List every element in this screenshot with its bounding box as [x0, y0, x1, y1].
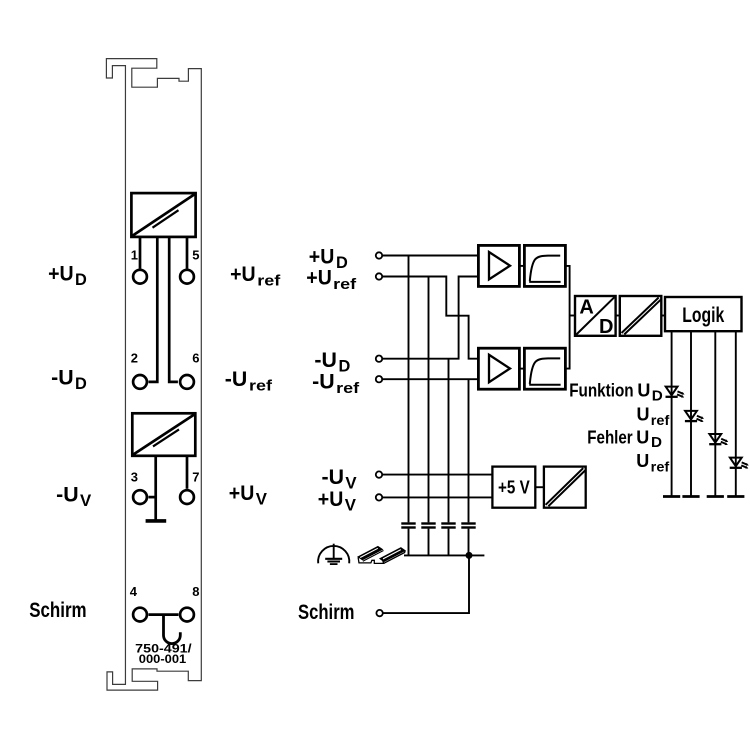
shield clamp curl [164, 616, 181, 644]
terminal 5 clamp circle [180, 270, 194, 284]
wire U1 to F1 [519, 265, 524, 267]
svg-text:Fehler: Fehler [587, 428, 632, 448]
Logik block [665, 297, 742, 331]
capacitor C3 [441, 524, 455, 528]
LED wire 4 (Fehler Uref) [735, 331, 737, 496]
DIN rail icon [358, 546, 405, 563]
link wire terminal 4 to terminal 8 [149, 613, 179, 616]
svg-text:V: V [345, 496, 357, 515]
node circle -UV [376, 471, 382, 477]
terminal 1 clamp circle [133, 270, 147, 284]
svg-text:+5 V: +5 V [498, 477, 530, 497]
svg-text:2: 2 [131, 351, 138, 366]
svg-text:U: U [636, 451, 649, 471]
bus drop -UD to capacitor C3 [448, 359, 450, 523]
svg-text:ref: ref [333, 276, 357, 293]
wire isolation to Logik [661, 315, 665, 317]
svg-text:U: U [637, 381, 650, 401]
amplifier U2 [478, 348, 519, 389]
bus drop -Uref to capacitor C4 [468, 379, 470, 522]
terminal 7 clamp circle [180, 490, 194, 504]
svg-text:ref: ref [257, 273, 281, 290]
node circle +UV [376, 494, 382, 500]
svg-text:-U: -U [56, 484, 79, 507]
capacitor C2 [421, 524, 435, 528]
svg-text:7: 7 [192, 469, 199, 484]
svg-text:V: V [256, 489, 268, 508]
terminal 3 clamp circle [133, 490, 147, 504]
pin wire to terminal 1 [139, 237, 142, 269]
terminal 6 clamp circle [180, 375, 194, 389]
stub terminal 3 to chassis wire [149, 496, 156, 499]
svg-text:D: D [75, 374, 87, 393]
svg-text:-U: -U [314, 349, 337, 372]
svg-text:ref: ref [249, 378, 273, 395]
capacitor C4 [461, 524, 475, 528]
wire U2 to F2 [519, 368, 524, 370]
svg-text:-U: -U [51, 367, 74, 390]
svg-text:ref: ref [336, 380, 360, 397]
amplifier U1 [478, 245, 519, 286]
svg-text:Funktion: Funktion [569, 381, 633, 401]
svg-text:000-001: 000-001 [139, 652, 187, 666]
svg-text:+U: +U [306, 266, 332, 289]
terminal 4 clamp circle [133, 608, 147, 622]
junction dot Schirm/ground [466, 552, 473, 559]
svg-text:1: 1 [131, 247, 138, 262]
svg-text:+U: +U [230, 263, 256, 286]
LED D1 [666, 387, 685, 398]
pin wire to terminal 7 [186, 456, 189, 489]
svg-text:3: 3 [131, 469, 138, 484]
LED wire 3 (Fehler UD) [714, 331, 716, 496]
svg-text:D: D [652, 387, 663, 404]
svg-text:D: D [651, 434, 662, 451]
bus drop +Uref to capacitor C2 [428, 277, 430, 523]
wire +UD to amplifier U1 [382, 255, 478, 257]
filter F1 [524, 245, 565, 286]
svg-text:6: 6 [192, 351, 199, 366]
svg-text:4: 4 [130, 584, 138, 599]
svg-text:5: 5 [192, 247, 199, 262]
isolation block after A/D (double diagonal) [620, 296, 662, 336]
svg-text:V: V [80, 491, 92, 510]
LED D3 [709, 434, 728, 445]
svg-text:V: V [345, 474, 357, 493]
node circle +Uref [376, 273, 382, 279]
svg-text:8: 8 [192, 584, 199, 599]
svg-text:ref: ref [651, 459, 670, 474]
svg-text:D: D [336, 253, 348, 272]
wire +UV to +5V converter [382, 496, 492, 498]
svg-text:Logik: Logik [682, 304, 724, 327]
converter block B2 (galvanic isolation) [132, 413, 195, 456]
svg-text:Schirm: Schirm [298, 601, 355, 624]
terminal 2 clamp circle [133, 375, 147, 389]
svg-text:-U: -U [225, 368, 248, 391]
wire C1 to ground bus [408, 529, 410, 556]
wire +5V to isolation block [535, 486, 544, 488]
pin wire to terminal 6 [169, 237, 178, 382]
svg-text:U: U [637, 405, 650, 425]
pin wire to terminal 5 [186, 237, 189, 269]
svg-text:+U: +U [229, 482, 255, 505]
svg-text:ref: ref [651, 413, 670, 428]
svg-text:D: D [339, 357, 351, 376]
node circle -UD [376, 356, 382, 362]
wire C3 to ground bus [448, 529, 450, 556]
bus drop +UD to capacitor C1 [408, 256, 410, 523]
terminal 8 clamp circle [180, 608, 194, 622]
LED D2 [685, 411, 704, 422]
LED D4 [730, 458, 749, 469]
pin wire block B2 to chassis [154, 456, 157, 520]
svg-text:+U: +U [48, 262, 74, 285]
LED wire 1 (Funktion UD) [671, 331, 673, 496]
capacitor C1 [401, 524, 415, 528]
wire -UV to +5V converter [382, 474, 492, 476]
wire -UD routed up to amplifier U1 [382, 277, 478, 359]
wire +Uref routed to amplifier U2 [382, 277, 478, 359]
svg-text:A: A [579, 296, 593, 318]
ground bus wire [404, 554, 484, 556]
svg-text:D: D [599, 316, 613, 338]
isolation block after +5V (double diagonal) [544, 467, 586, 508]
LED wire 2 (Funktion Uref) [690, 331, 692, 496]
wire C2 to ground bus [428, 529, 430, 556]
wire A/D to isolation block [616, 315, 620, 317]
svg-text:D: D [75, 270, 87, 289]
wire C4 to ground bus [468, 529, 470, 556]
svg-text:U: U [636, 428, 649, 448]
svg-text:+U: +U [309, 245, 335, 268]
riser joining F1 and F2 outputs [565, 266, 569, 369]
wire Schirm to junction [383, 555, 469, 613]
svg-text:-U: -U [312, 370, 335, 393]
svg-text:+U: +U [318, 488, 344, 511]
module housing outline 750-491 [106, 59, 201, 691]
svg-text:Schirm: Schirm [29, 599, 86, 622]
svg-text:-U: -U [322, 466, 345, 489]
wire -Uref to amplifier U2 [382, 378, 478, 380]
A/D converter block [575, 296, 616, 336]
LED wire 4 end bar [727, 495, 744, 498]
wire riser to A/D converter [570, 315, 575, 317]
converter block B1 (galvanic isolation) [131, 193, 195, 237]
node circle Schirm [376, 610, 382, 616]
pin wire to terminal 2 [149, 237, 158, 382]
LED wire 1 end bar [663, 495, 680, 498]
node circle -Uref [376, 376, 382, 382]
functional earth symbol [318, 544, 349, 564]
filter F2 [524, 348, 565, 389]
LED wire 2 end bar [682, 495, 699, 498]
node circle +UD [376, 252, 382, 258]
LED wire 3 end bar [707, 495, 724, 498]
+5V converter block [492, 467, 535, 508]
chassis bar [146, 519, 167, 523]
